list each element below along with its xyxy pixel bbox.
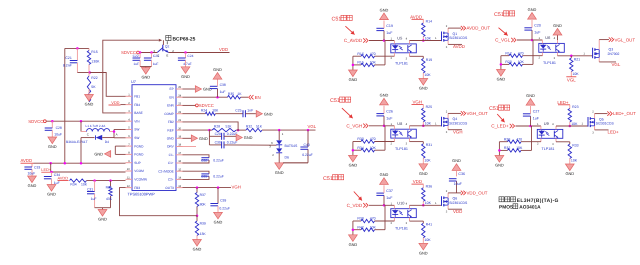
wire C_LED+ input: [516, 125, 541, 127]
svg-text:E: E: [166, 54, 168, 58]
svg-text:470: 470: [516, 137, 522, 141]
svg-text:L1 4.7uH 2.4A: L1 4.7uH 2.4A: [86, 124, 107, 128]
ground (C24): [181, 67, 190, 74]
svg-text:REF: REF: [167, 128, 173, 132]
svg-text:R15: R15: [91, 50, 97, 54]
svg-text:R25: R25: [426, 105, 432, 109]
svg-text:VDD: VDD: [413, 179, 422, 184]
svg-text:R28: R28: [214, 125, 220, 129]
svg-text:R36: R36: [426, 185, 432, 189]
svg-text:R41: R41: [426, 223, 432, 227]
svg-text:VGH: VGH: [412, 100, 422, 105]
svg-text:R32: R32: [246, 125, 252, 129]
wire PGND: [114, 146, 116, 154]
junction R21 node: [570, 55, 573, 58]
svg-text:D6: D6: [285, 156, 290, 160]
svg-text:C39: C39: [220, 198, 226, 202]
svg-text:10: 10: [127, 168, 130, 171]
svg-text:1uF: 1uF: [534, 31, 541, 35]
opto U8 pins 1,2,3,4: [393, 126, 395, 129]
svg-text:VDD: VDD: [219, 47, 228, 52]
resistor R32 10K: [499, 149, 507, 151]
wire DRV stub: [183, 146, 197, 148]
wire resistor pair to ground: [352, 221, 354, 235]
svg-text:VDD: VDD: [111, 100, 119, 105]
svg-text:80K: 80K: [200, 203, 207, 207]
junction C28: [51, 120, 54, 123]
svg-text:22: 22: [178, 111, 181, 114]
port VGH_OUT: [461, 111, 463, 115]
svg-text:C1-: C1-: [169, 153, 174, 157]
transistor Q6 SI2301CDS (PMOS): [441, 196, 443, 206]
capacitor C27 1uF: [530, 116, 532, 126]
ground (above C19): [380, 13, 389, 20]
capacitor C31 1uF: [94, 181, 96, 192]
svg-text:GND: GND: [85, 102, 94, 107]
wire C22/C23 to ground: [140, 66, 151, 68]
svg-text:C33: C33: [34, 165, 40, 169]
svg-text:GND: GND: [244, 135, 253, 140]
resistor R20 10K: [501, 63, 509, 65]
svg-text:Q2: Q2: [165, 44, 170, 48]
junction input node (C): [383, 125, 386, 128]
svg-text:C32: C32: [201, 158, 207, 162]
capacitor C32 0.22uF: [183, 155, 210, 158]
svg-text:U6: U6: [545, 35, 550, 40]
svg-text:C35: C35: [201, 175, 207, 179]
junction C34: [50, 171, 53, 174]
svg-text:BCP68-25: BCP68-25: [173, 37, 196, 43]
svg-text:LED+: LED+: [608, 130, 620, 135]
svg-text:10K: 10K: [518, 60, 525, 64]
ground (above C36): [452, 164, 461, 171]
svg-text:1uF: 1uF: [133, 62, 139, 66]
svg-text:GND: GND: [419, 171, 428, 176]
svg-text:1K: 1K: [237, 92, 242, 96]
svg-text:GND: GND: [565, 171, 574, 176]
svg-text:R20: R20: [505, 60, 511, 64]
transistor Q1 SI2301CDS (PMOS): [441, 32, 443, 42]
resistor R15 10K: [353, 64, 361, 66]
wire SDVCC to Q2 collector: [139, 52, 157, 54]
ground (C28): [48, 137, 57, 144]
junction input node (B): [531, 39, 534, 42]
svg-text:R31: R31: [426, 143, 432, 147]
wire resistor pair to ground: [498, 142, 500, 156]
svg-text:U10: U10: [397, 201, 405, 206]
capacitor C21 8.2nF: [76, 48, 78, 60]
transistor Q5 SI2301CDS (PMOS): [587, 117, 589, 127]
junction gate node (A): [422, 39, 425, 42]
svg-text:1uF: 1uF: [153, 62, 159, 66]
capacitor C26 1uF: [383, 116, 385, 126]
svg-text:12: 12: [127, 185, 130, 188]
svg-text:8.2nF: 8.2nF: [63, 64, 72, 68]
junction C39: [217, 186, 220, 189]
svg-text:11: 11: [127, 177, 130, 180]
svg-text:C51: C51: [330, 98, 340, 104]
resistor R21 10K: [570, 58, 573, 72]
resistor R28 51K: [212, 128, 236, 131]
svg-text:C21: C21: [65, 56, 71, 60]
resistor R33 10K: [569, 142, 571, 144]
svg-text:VDD_OUT: VDD_OUT: [467, 190, 488, 195]
capacitor C28 10uF: [51, 121, 53, 128]
control module A: [332, 7, 491, 90]
svg-text:R38: R38: [357, 217, 363, 221]
inductor L1 4.7uH: [81, 121, 114, 131]
svg-text:10K: 10K: [572, 72, 579, 76]
wire source to rail: [447, 205, 449, 209]
svg-text:GND: GND: [264, 111, 273, 116]
svg-text:15: 15: [178, 168, 181, 171]
diode D4 B360A-E3/61T: [66, 132, 118, 144]
svg-text:GND: GND: [213, 67, 222, 72]
ground (below resistor pair C): [349, 155, 358, 162]
svg-text:GND: GND: [48, 144, 57, 149]
svg-text:VCOMIN: VCOMIN: [134, 178, 147, 182]
svg-text:TLP181: TLP181: [395, 62, 408, 66]
wire LED+ to VCOM pin: [50, 163, 52, 172]
svg-text:10K: 10K: [571, 159, 578, 163]
svg-text:C2-/MODE: C2-/MODE: [158, 169, 174, 173]
power label VGL (below R21): [566, 76, 576, 78]
junction C22: [139, 51, 142, 54]
wire opto collector to gate: [410, 204, 442, 206]
capacitor C34 1uF: [51, 172, 53, 177]
svg-text:1uF: 1uF: [386, 117, 393, 121]
svg-text:21: 21: [178, 119, 181, 122]
svg-text:1uF: 1uF: [533, 117, 540, 121]
junction D4: [80, 162, 83, 165]
resistor R35 1K: [228, 96, 241, 99]
svg-text:43K: 43K: [106, 197, 113, 201]
opto U5 pins 1,2,3,4: [393, 41, 395, 44]
resistor R42 10K: [353, 229, 361, 231]
svg-text:0.22uF: 0.22uF: [213, 175, 224, 179]
svg-text:C51: C51: [494, 12, 504, 18]
resistor R24 10K: [205, 112, 215, 115]
ground (above C26): [380, 98, 389, 105]
wire AVDD feedback (left vertical): [64, 48, 66, 163]
resistor R41 10K: [422, 221, 424, 223]
svg-text:SI2301CDS: SI2301CDS: [449, 201, 468, 205]
resistor R14 10K: [422, 19, 424, 23]
svg-text:PGND: PGND: [134, 144, 144, 148]
svg-text:VGL: VGL: [567, 78, 576, 83]
svg-text:C51: C51: [332, 17, 342, 23]
wire FB1 path: [90, 73, 126, 97]
ground (below resistor pair E): [349, 235, 358, 242]
wire FB2 jog: [183, 122, 239, 130]
svg-text:PGND: PGND: [134, 153, 144, 157]
wire opto collector to gate: [556, 125, 588, 127]
opto-coupler U10 TLP181: [391, 209, 417, 218]
svg-text:10K: 10K: [81, 183, 88, 187]
svg-text:TLP181: TLP181: [543, 61, 556, 65]
svg-text:C23: C23: [153, 54, 159, 58]
svg-text:C27: C27: [533, 110, 540, 114]
resistor R38 470: [353, 220, 361, 222]
svg-text:C31: C31: [87, 188, 93, 192]
svg-text:C_VGH: C_VGH: [346, 124, 362, 129]
svg-text:GND: GND: [275, 170, 284, 175]
svg-text:14: 14: [178, 177, 181, 180]
capacitor C39 0.22uF: [217, 188, 219, 204]
svg-text:R19: R19: [426, 58, 432, 62]
svg-text:VGH: VGH: [453, 129, 463, 134]
svg-text:GND: GND: [349, 162, 358, 167]
svg-text:C19: C19: [386, 24, 393, 28]
svg-text:51K: 51K: [225, 125, 232, 129]
wire input pulldown: [384, 41, 386, 65]
leader arrow (B): [499, 28, 508, 36]
svg-text:R24: R24: [201, 109, 207, 113]
wire D4 to AVDD rail: [80, 138, 82, 164]
junction gate node (C): [422, 125, 425, 128]
svg-text:SI2301CDS: SI2301CDS: [596, 122, 615, 126]
svg-text:LED+_OUT: LED+_OUT: [613, 111, 636, 116]
svg-text:51K: 51K: [256, 125, 263, 129]
svg-text:0.22uF: 0.22uF: [213, 158, 224, 162]
svg-text:C30: C30: [215, 140, 221, 144]
svg-text:VCOM: VCOM: [134, 169, 144, 173]
svg-text:470: 470: [370, 217, 376, 221]
wire input pulldown: [384, 205, 386, 229]
junction FB2/R32: [237, 129, 240, 132]
svg-text:GND: GND: [380, 7, 389, 12]
svg-text:R42: R42: [357, 225, 363, 229]
svg-text:R32: R32: [504, 146, 510, 150]
wire EN net: [183, 96, 228, 98]
svg-text:GND: GND: [349, 77, 358, 82]
ground (D6): [275, 163, 284, 170]
svg-text:VDD: VDD: [453, 209, 462, 214]
svg-text:SI2301CDS: SI2301CDS: [449, 36, 468, 40]
svg-text:C20: C20: [534, 24, 541, 28]
svg-text:4.7uF: 4.7uF: [183, 62, 191, 66]
wire GND pin19: [183, 137, 192, 139]
IC U7 TPS65100PWP: [126, 79, 183, 197]
wire C30 to D6 mid: [276, 145, 278, 147]
ground (below R22): [85, 95, 94, 102]
capacitor C30 0.22uF: [209, 144, 221, 146]
svg-text:FB2: FB2: [168, 120, 174, 124]
wire AVDD rail: [34, 162, 126, 164]
resistor R39 13K: [196, 216, 198, 221]
svg-text:C51: C51: [489, 106, 499, 112]
svg-text:C25: C25: [235, 109, 241, 113]
svg-text:13K: 13K: [200, 232, 207, 236]
junction C31: [93, 179, 96, 182]
wire source to VGL: [598, 58, 600, 62]
svg-text:16: 16: [178, 160, 181, 163]
wire C_VDD input: [369, 204, 394, 206]
svg-text:EN: EN: [169, 95, 174, 99]
svg-text:470: 470: [518, 51, 524, 55]
svg-text:VGH_OUT: VGH_OUT: [467, 111, 489, 116]
ground (below R31): [419, 164, 428, 171]
capacitor C19 1uF: [383, 31, 385, 41]
svg-text:C_VDD: C_VDD: [347, 203, 363, 208]
svg-text:FB1: FB1: [134, 95, 140, 99]
svg-text:GND: GND: [452, 158, 461, 163]
wire drain to output: [447, 28, 449, 33]
ground (C34): [47, 185, 56, 192]
svg-text:SDVCC: SDVCC: [28, 119, 43, 124]
svg-text:20: 20: [178, 127, 181, 130]
svg-text:ENR: ENR: [167, 104, 174, 108]
ground (below R33): [565, 164, 574, 171]
wire resistor pair to ground: [500, 56, 502, 70]
resistor R34 10K: [353, 149, 361, 151]
svg-text:10K: 10K: [425, 36, 432, 40]
svg-text:AVDD_OUT: AVDD_OUT: [467, 26, 491, 31]
ground (C39): [214, 212, 223, 219]
svg-text:1uF: 1uF: [386, 31, 393, 35]
svg-text:24: 24: [178, 94, 181, 97]
capacitor C25 1nF: [242, 110, 244, 117]
port SDVCC (ENR): [183, 104, 196, 106]
svg-text:GND: GND: [497, 77, 506, 82]
diode D6 BAT54S: [269, 130, 298, 163]
junction input node (D): [529, 125, 532, 128]
ground (C33): [28, 176, 37, 183]
wire C_AVDD input: [369, 40, 394, 42]
ground (COMP): [256, 110, 262, 117]
wire opto emitter: [556, 141, 570, 143]
wire drain to output: [447, 113, 449, 118]
wire REF bypass vertical: [208, 130, 210, 145]
svg-text:AVDD: AVDD: [453, 44, 465, 49]
svg-text:1uF: 1uF: [386, 196, 393, 200]
opto U10 pins 1,2,3,4: [393, 205, 395, 208]
svg-text:BASE: BASE: [134, 111, 143, 115]
wire C_VGH input: [369, 125, 394, 127]
svg-text:130K: 130K: [91, 59, 100, 63]
resistor R36 43K: [110, 181, 112, 187]
junction C23: [150, 51, 153, 54]
svg-text:1uF: 1uF: [220, 90, 226, 94]
svg-text:A: A: [116, 132, 118, 136]
svg-text:470: 470: [370, 137, 376, 141]
ground (PGND): [105, 151, 111, 158]
capacitor C35 0.22uF: [183, 171, 210, 174]
junction input node (E): [383, 204, 386, 207]
port AVDD_OUT: [461, 26, 463, 30]
wire FB3 loop: [120, 188, 198, 216]
svg-text:470: 470: [370, 52, 376, 56]
junction C38: [216, 96, 219, 99]
svg-text:GND: GND: [94, 152, 103, 157]
svg-text:GND: GND: [141, 75, 150, 80]
svg-text:R30: R30: [357, 137, 363, 141]
ground (below resistor pair D): [495, 156, 504, 163]
svg-text:R15: R15: [357, 61, 363, 65]
junction resistor pair: [498, 149, 501, 152]
ground (EP): [195, 86, 201, 93]
ground (pin19): [191, 135, 197, 142]
svg-text:R28: R28: [504, 137, 510, 141]
svg-text:EL3H7(B)(TA)-G: EL3H7(B)(TA)-G: [517, 198, 559, 204]
svg-text:C29: C29: [215, 132, 221, 136]
wire drain to output: [594, 114, 596, 119]
svg-text:GND: GND: [28, 183, 37, 188]
wire VIN rail: [46, 120, 125, 122]
ground (below resistor pair A): [349, 70, 358, 77]
wire SW node: [113, 130, 115, 138]
resistor R30 470: [353, 141, 361, 143]
wire C31/R36 to ground: [95, 207, 111, 209]
svg-text:C22: C22: [133, 54, 139, 58]
resistor R28 470: [499, 141, 507, 143]
svg-text:10uF: 10uF: [28, 171, 36, 175]
control module E: [323, 158, 488, 255]
svg-text:10uF: 10uF: [54, 133, 62, 137]
capacitor C38 1uF: [217, 89, 219, 98]
wire opto collector to gate: [410, 125, 442, 127]
junction LED+ tap: [49, 162, 52, 165]
svg-text:GND: GND: [193, 247, 202, 252]
svg-text:GND: GND: [181, 74, 190, 79]
svg-text:GND: GND: [380, 172, 389, 177]
capacitor C33 10uF: [31, 163, 33, 167]
wire divider mid node: [77, 72, 89, 74]
junction C21 top: [76, 47, 79, 50]
svg-text:GND: GND: [419, 86, 428, 91]
svg-text:5K: 5K: [91, 85, 96, 89]
capacitor C24 4.7uF: [185, 53, 187, 59]
ground (C22/C23): [141, 68, 150, 75]
wire source to rail: [594, 126, 596, 130]
svg-text:R16: R16: [357, 52, 363, 56]
port EN: [249, 95, 251, 99]
wire OUT3 VGH rail: [183, 187, 232, 189]
wire input pulldown: [532, 40, 534, 64]
svg-text:PMOS: PMOS: [499, 204, 514, 210]
svg-text:EN: EN: [255, 95, 261, 100]
resistor R31 10K: [422, 142, 424, 144]
wire resistor pair to ground: [352, 142, 354, 156]
resistor R15 130K: [88, 48, 90, 50]
junction resistor pair: [500, 63, 503, 66]
svg-text:GND: GND: [495, 163, 504, 168]
svg-text:10K: 10K: [370, 61, 377, 65]
svg-text:U5: U5: [397, 36, 402, 41]
resistor R34 10K: [70, 179, 87, 182]
svg-text:R33: R33: [572, 143, 578, 147]
svg-text:10K: 10K: [424, 158, 431, 162]
svg-text:C26: C26: [386, 110, 393, 114]
ground (above C20): [528, 13, 537, 20]
resistor R37 40K: [196, 188, 198, 193]
svg-text:GND: GND: [199, 136, 208, 141]
junction R37: [196, 186, 199, 189]
svg-text:10K: 10K: [425, 122, 432, 126]
leader arrow (D): [497, 114, 504, 122]
wire opto pin4 to ground: [557, 35, 559, 40]
wire REF: [183, 129, 210, 131]
svg-text:13: 13: [178, 185, 181, 188]
svg-text:GND: GND: [553, 23, 562, 28]
svg-text:R34: R34: [70, 183, 76, 187]
wire input pulldown: [531, 126, 533, 150]
svg-text:U8: U8: [397, 121, 402, 126]
svg-text:1nF: 1nF: [247, 109, 253, 113]
capacitor C37 1uF: [383, 195, 385, 205]
svg-text:GND: GND: [214, 219, 223, 224]
svg-text:C38: C38: [220, 83, 226, 87]
